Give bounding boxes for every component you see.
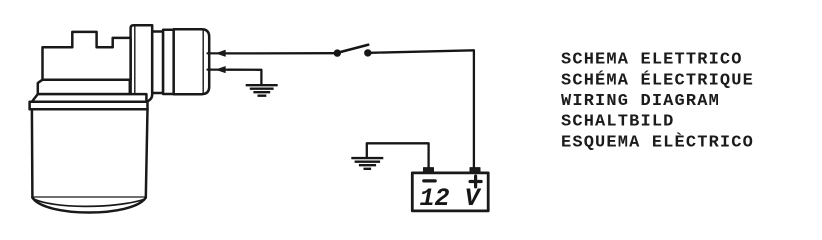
svg-text:12: 12 — [420, 184, 450, 213]
battery BT1: case — [412, 173, 488, 211]
motor M1: canister rim band — [30, 102, 148, 109]
motor M1: skirt flare band 2 — [33, 94, 147, 102]
battery BT1: - terminal post — [424, 168, 434, 173]
wire: switch to battery + terminal — [371, 50, 474, 167]
caption: wiring diagram titles in five languages — [561, 51, 754, 153]
battery BT1: minus sign — [424, 179, 435, 182]
wire: battery - terminal to ground G2 — [367, 143, 429, 168]
motor M1: canister body — [32, 109, 148, 197]
motor M1: armature housing ring 1 — [152, 32, 163, 94]
battery BT1: plus sign — [470, 176, 481, 187]
motor M1: armature housing ring 2 — [163, 30, 174, 94]
motor terminal pin 2 (bottom) — [208, 67, 229, 73]
ground G2 (battery return) — [351, 158, 383, 169]
motor M1: gearbox housing stepped body — [43, 32, 131, 80]
motor M1: end can with rounded cap — [174, 29, 210, 94]
motor terminal pin 1 (top) — [208, 50, 229, 56]
battery BT1: value label 12 V — [420, 184, 482, 213]
wire: motor pin 2 to ground G1 — [228, 70, 261, 85]
motor M1: dished bottom outer curve — [32, 198, 145, 213]
svg-text:SCHÉMA ÉLECTRIQUE: SCHÉMA ÉLECTRIQUE — [561, 70, 754, 90]
svg-text:SCHEMA ELETTRICO: SCHEMA ELETTRICO — [561, 51, 743, 70]
svg-text:SCHALTBILD: SCHALTBILD — [561, 112, 675, 131]
switch S1 (open) — [334, 45, 370, 56]
svg-text:ESQUEMA ELÈCTRICO: ESQUEMA ELÈCTRICO — [561, 132, 754, 152]
motor M1: skirt flare band 1 — [38, 80, 130, 94]
svg-text:V: V — [465, 184, 482, 213]
ground G1 (motor return) — [246, 85, 278, 96]
svg-text:WIRING DIAGRAM: WIRING DIAGRAM — [561, 92, 720, 111]
motor M1: dished bottom inner curve — [34, 199, 144, 207]
wire: motor pin 1 to switch — [228, 52, 335, 55]
motor M1: mounting flange block — [131, 25, 153, 103]
battery BT1: + terminal post — [470, 168, 480, 173]
